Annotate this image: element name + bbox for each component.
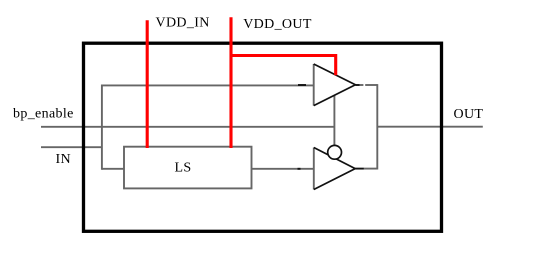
power VDD_OUT branch to buffer (231, 56, 336, 76)
wire enable vertical between buffers (333, 95, 335, 146)
op-amp U2 inverting buffer triangle (314, 148, 355, 190)
wire IN horizontal (41, 146, 102, 148)
op-amp U2 inverting buffer left edge (313, 148, 315, 190)
wire bypass top horizontal to buffer input (102, 84, 314, 86)
svg-text:VDD_OUT: VDD_OUT (243, 17, 312, 32)
op-amp U2 input pin stub (298, 168, 301, 170)
wire inverter output (364, 168, 377, 170)
wire buffer output to vertical (365, 84, 377, 86)
wire buffer output stub gray (360, 84, 364, 86)
svg-text:VDD_IN: VDD_IN (156, 16, 210, 31)
svg-text:OUT: OUT (454, 107, 484, 122)
op-amp U2 output pin stub (355, 168, 364, 170)
op-amp U1 bypass buffer left edge (313, 64, 315, 106)
op-amp U1 input pin stub (298, 84, 306, 86)
wire LS input (102, 168, 124, 170)
power VDD_IN red line (146, 20, 149, 148)
wire IN branch vertical (101, 85, 103, 170)
wire output vertical (376, 84, 378, 169)
wire OUT horizontal (377, 126, 483, 128)
svg-text:IN: IN (56, 152, 71, 167)
svg-text:LS: LS (175, 161, 192, 176)
svg-text:bp_enable: bp_enable (13, 107, 74, 122)
power VDD_OUT red line (229, 17, 232, 148)
LS box (124, 147, 252, 189)
op-amp U1 output pin stub (355, 84, 359, 86)
outer block box (84, 43, 442, 231)
op-amp U1 bypass buffer triangle (314, 64, 356, 106)
op-amp U2 enable bubble (328, 145, 342, 159)
wire LS output to inverter input (252, 168, 314, 170)
wire bp_enable horizontal (41, 126, 334, 128)
